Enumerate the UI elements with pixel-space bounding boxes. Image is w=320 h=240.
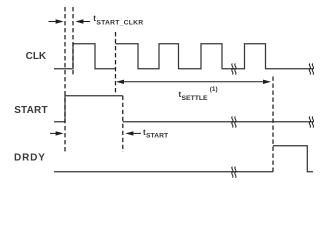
START waveform	[54, 96, 313, 122]
svg-text:CLK: CLK	[26, 51, 47, 62]
break mark at right end of START line	[309, 117, 313, 128]
svg-text:SETTLE: SETTLE	[182, 95, 209, 102]
break marks on DRDY low line	[232, 167, 236, 178]
svg-text:(1): (1)	[210, 86, 218, 93]
CLK waveform	[54, 44, 313, 69]
svg-text:START_CLKR: START_CLKR	[96, 19, 143, 26]
arrow left of tSTART (pointing right)	[50, 131, 64, 135]
break mark at right end of CLK line	[309, 64, 313, 75]
break marks on START low line	[232, 117, 236, 128]
break marks on CLK low line	[232, 64, 236, 75]
dashed line B: first CLK rising edge reference	[72, 7, 74, 76]
dashed line C: CLK rising edge at settle start	[115, 32, 117, 93]
label tSTART_CLKR	[93, 14, 143, 26]
dashed line E: DRDY rising edge	[272, 77, 274, 172]
double arrow tSETTLE	[116, 80, 271, 84]
svg-text:DRDY: DRDY	[14, 152, 46, 163]
arrow left of tSTART_CLKR	[49, 19, 64, 23]
DRDY waveform	[54, 146, 313, 172]
svg-text:START: START	[146, 132, 169, 139]
arrow right of tSTART (pointing left)	[125, 131, 141, 135]
dashed line D: START falling edge	[122, 96, 124, 152]
svg-text:START: START	[14, 105, 48, 116]
label tSETTLE with superscript (1)	[179, 86, 218, 102]
arrow right (pointing left) of tSTART_CLKR	[75, 19, 90, 23]
label tSTART	[143, 128, 169, 140]
dashed line A: START rising edge reference	[64, 7, 66, 152]
